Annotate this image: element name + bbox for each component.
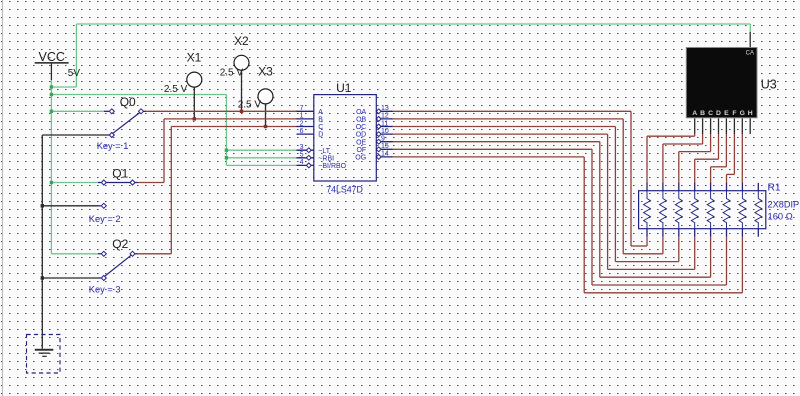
svg-text:2: 2 — [300, 120, 304, 127]
svg-text:H: H — [748, 110, 753, 117]
svg-text:5V: 5V — [68, 68, 81, 79]
svg-text:11: 11 — [381, 120, 388, 127]
svg-text:OG: OG — [355, 155, 366, 162]
svg-text:Q1: Q1 — [112, 166, 128, 180]
svg-text:9: 9 — [381, 136, 385, 143]
svg-text:6: 6 — [300, 128, 304, 135]
svg-text:2X8DIP: 2X8DIP — [768, 200, 800, 210]
svg-text:2.5 V: 2.5 V — [164, 84, 188, 95]
svg-text:U1: U1 — [336, 81, 352, 95]
svg-text:Key = 1: Key = 1 — [97, 141, 129, 151]
svg-text:B: B — [318, 117, 323, 124]
svg-text:VCC: VCC — [38, 50, 64, 64]
svg-text:OB: OB — [356, 117, 366, 124]
svg-text:4: 4 — [300, 159, 304, 166]
svg-text:12: 12 — [381, 113, 389, 120]
svg-text:A: A — [318, 109, 323, 116]
svg-text:7: 7 — [300, 105, 304, 112]
svg-text:OE: OE — [356, 139, 366, 146]
svg-text:X1: X1 — [187, 51, 202, 65]
svg-text:Key = 3: Key = 3 — [89, 284, 121, 294]
svg-text:R1: R1 — [768, 182, 781, 193]
svg-text:160 Ω: 160 Ω — [768, 210, 793, 221]
svg-text:~RBI: ~RBI — [318, 155, 334, 162]
svg-text:2.5 V: 2.5 V — [238, 99, 262, 110]
svg-text:B: B — [700, 110, 705, 117]
svg-text:10: 10 — [381, 128, 389, 135]
svg-text:OD: OD — [356, 132, 367, 139]
svg-text:A: A — [692, 110, 697, 117]
svg-text:74LS47D: 74LS47D — [326, 185, 363, 195]
svg-text:13: 13 — [381, 105, 389, 112]
svg-text:OF: OF — [356, 147, 366, 154]
svg-text:~LT: ~LT — [318, 148, 330, 155]
svg-text:5: 5 — [300, 152, 304, 159]
svg-text:OC: OC — [356, 124, 367, 131]
svg-text:14: 14 — [381, 151, 389, 158]
svg-text:OA: OA — [356, 109, 366, 116]
svg-text:G: G — [740, 110, 745, 117]
svg-text:X3: X3 — [258, 64, 273, 78]
svg-text:U3: U3 — [761, 78, 777, 92]
svg-text:F: F — [732, 110, 736, 117]
svg-text:~BI/RBO: ~BI/RBO — [318, 163, 346, 170]
svg-text:15: 15 — [381, 143, 389, 150]
svg-text:E: E — [724, 110, 729, 117]
svg-text:X2: X2 — [234, 34, 249, 48]
svg-text:CA: CA — [746, 50, 754, 56]
svg-text:1: 1 — [300, 113, 304, 120]
svg-text:Q2: Q2 — [112, 237, 128, 251]
svg-text:C: C — [708, 110, 713, 117]
svg-text:2.5 V: 2.5 V — [220, 68, 244, 79]
svg-text:Key = 2: Key = 2 — [89, 214, 121, 224]
svg-text:D: D — [318, 132, 323, 139]
svg-text:D: D — [716, 110, 721, 117]
svg-text:Q0: Q0 — [120, 95, 136, 109]
svg-text:C: C — [318, 124, 323, 131]
svg-text:3: 3 — [300, 144, 304, 151]
